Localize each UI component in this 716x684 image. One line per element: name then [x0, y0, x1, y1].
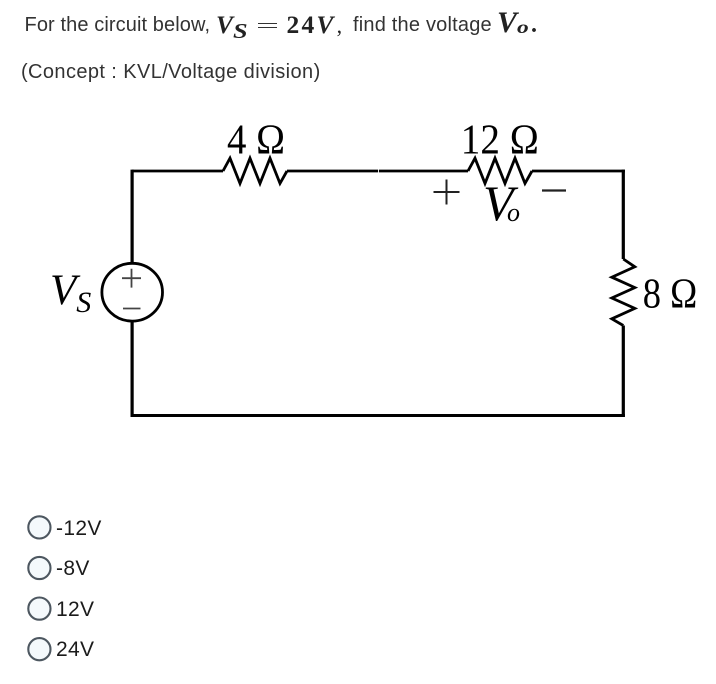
svg-text:o: o — [507, 198, 520, 227]
option label 2 — [56, 558, 90, 579]
heading line 2 — [21, 62, 321, 82]
minus sign inside source — [123, 308, 141, 310]
option radio 4 — [28, 638, 50, 660]
wire top-right segment — [532, 170, 625, 173]
option radio 1 — [28, 516, 50, 538]
option label 4 — [56, 639, 94, 660]
resistor R3 8ohm — [612, 259, 635, 326]
option label 1 — [56, 518, 102, 539]
wire bottom segment — [131, 414, 625, 417]
minus sign of Vo polarity — [542, 189, 566, 191]
voltage source VS circle — [102, 263, 163, 321]
svg-text:8 Ω: 8 Ω — [643, 272, 698, 318]
wire left upper segment — [131, 170, 134, 262]
resistor R2 12ohm — [468, 158, 532, 183]
wire right upper segment — [622, 170, 625, 259]
option label 3 — [56, 599, 94, 620]
wire left lower segment — [131, 321, 134, 417]
svg-text:4 Ω: 4 Ω — [227, 118, 285, 164]
svg-text:12 Ω: 12 Ω — [461, 118, 539, 164]
node tick gap — [378, 169, 380, 173]
option radio 3 — [28, 598, 50, 620]
wire top-middle segment — [287, 170, 468, 173]
wire right lower segment — [622, 326, 625, 417]
plus sign inside source — [122, 269, 141, 288]
option radio 2 — [28, 557, 50, 579]
heading line 1 — [25, 15, 211, 35]
resistor R1 4ohm — [223, 158, 287, 183]
svg-text:VS: VS — [50, 267, 91, 319]
wire top-left segment — [132, 170, 223, 173]
plus sign of Vo polarity — [434, 180, 460, 205]
